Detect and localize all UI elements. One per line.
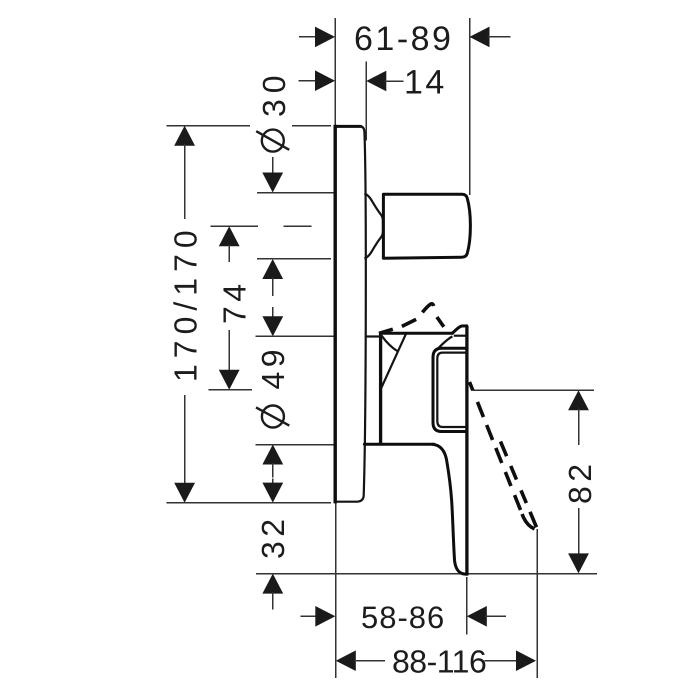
grip ring inner [437, 353, 467, 427]
wall plate top edge [335, 125, 361, 128]
extension line right (knob right, top) [469, 18, 471, 195]
extension line lever-right bottom [466, 577, 468, 635]
dashed lever top edge dash 1 [379, 329, 393, 333]
lever lower arm outer curve [433, 444, 467, 574]
lever cap top [452, 326, 467, 333]
temperature knob (diameter 30) [383, 194, 470, 258]
escutcheon base bottom edge [364, 443, 434, 446]
lever top surface curve [436, 336, 453, 350]
dashed lever top edge dash 2 [402, 319, 416, 326]
dimension 88-116 [336, 644, 536, 680]
svg-text:170/170: 170/170 [168, 224, 204, 382]
escutcheon cone top curve [381, 335, 398, 351]
dimension 32 [255, 479, 597, 610]
wall plate right edge and bottom [335, 126, 366, 501]
svg-text:32: 32 [255, 514, 291, 559]
svg-text:58-86: 58-86 [361, 600, 445, 635]
svg-text:61-89: 61-89 [354, 20, 453, 58]
svg-text:30: 30 [256, 69, 292, 117]
dashed lever corner dash [422, 304, 433, 313]
dashed lever left edge [470, 382, 536, 529]
dimension 14 [298, 62, 447, 141]
svg-text:49: 49 [255, 345, 291, 390]
wall plate left edge [334, 125, 337, 504]
dimension diameter 30 [256, 69, 334, 296]
lever cap underside [454, 335, 467, 337]
svg-text:88-116: 88-116 [392, 644, 486, 680]
extension line left (plate left edge, top) [334, 18, 336, 126]
svg-text:74: 74 [217, 279, 253, 324]
escutcheon base left edge [379, 333, 382, 444]
extension line plate-left bottom [335, 503, 337, 678]
dashed lever right edge [501, 442, 538, 529]
escutcheon cone diagonal [381, 334, 406, 389]
dimension 58-86 [301, 600, 507, 635]
extension line dashed-lever-tip bottom [536, 529, 538, 678]
dashed lever right edge dash upper [437, 317, 444, 327]
escutcheon base top edge [380, 332, 452, 335]
dimension 74 [209, 226, 312, 390]
dimension 82 [472, 390, 598, 573]
dimension diameter 49 [255, 307, 334, 478]
dimension 61-89 [299, 20, 511, 58]
dimension 170/170 [166, 126, 331, 503]
grip ring outer [433, 348, 467, 431]
svg-text:14: 14 [404, 64, 447, 102]
lever right edge [465, 326, 468, 574]
escutcheon neck top line [365, 335, 381, 337]
svg-text:82: 82 [562, 459, 598, 504]
knob neck [364, 193, 383, 259]
